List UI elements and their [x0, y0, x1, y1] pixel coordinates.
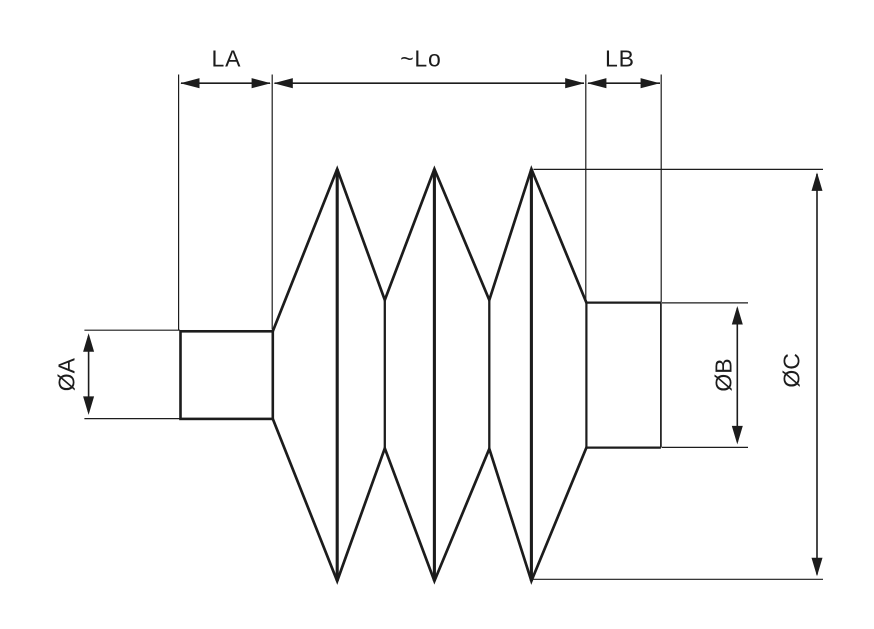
svg-text:~Lo: ~Lo: [400, 46, 441, 72]
extension line left of LA (x=178.6): [178, 75, 180, 331]
arrowhead LA right: [252, 78, 271, 88]
right collar block left edge: [585, 302, 587, 449]
svg-text:LA: LA: [212, 46, 242, 72]
ØB top extension line: [662, 302, 748, 304]
dimension line LA: [181, 82, 270, 84]
dimension line LB: [588, 82, 660, 84]
ØA top extension line: [84, 329, 180, 331]
ØC bottom extension line: [533, 578, 824, 580]
fold centre line 1: [336, 169, 339, 581]
right collar block (cylinder B) top edge: [585, 302, 661, 304]
right collar block bottom edge: [585, 447, 661, 449]
ØA arrowhead down: [83, 396, 94, 415]
bellows lower profile: [273, 419, 587, 581]
svg-text:LB: LB: [605, 46, 635, 72]
arrowhead ~Lo right: [565, 78, 584, 88]
ØC top extension line: [534, 168, 824, 170]
fold centre line 3: [530, 169, 533, 581]
fold centre line 2: [433, 169, 436, 581]
dimension line ~Lo: [275, 82, 585, 84]
ØA arrowhead up: [83, 333, 94, 352]
right collar block right edge: [660, 303, 662, 448]
ØB bottom extension line: [662, 446, 748, 448]
ØB arrowhead down: [732, 426, 743, 445]
ØB dimension arrow line: [736, 308, 738, 442]
ØB arrowhead up: [732, 306, 743, 325]
ØA bottom extension line: [84, 418, 180, 420]
svg-text:ØC: ØC: [779, 353, 805, 388]
ØC arrowhead up: [812, 172, 823, 191]
extension line Lo/LB shared (x=585.8): [585, 75, 587, 303]
ØA dimension arrow line: [88, 336, 90, 412]
arrowhead LB left: [587, 78, 606, 88]
svg-text:ØB: ØB: [710, 358, 736, 391]
ØC arrowhead down: [812, 558, 823, 577]
arrowhead LB right: [641, 78, 660, 88]
arrowhead ~Lo left: [274, 78, 293, 88]
ØC dimension arrow line: [816, 174, 818, 575]
svg-text:ØA: ØA: [54, 357, 80, 391]
waist line 1: [384, 300, 386, 448]
left collar block (small cylinder A): [181, 331, 273, 419]
bellows upper profile: [273, 169, 587, 331]
extension line right of LB (x=661.2): [660, 75, 662, 303]
arrowhead LA left: [180, 78, 199, 88]
waist line 2: [488, 300, 490, 449]
extension line LA/Lo shared (x=272.2): [271, 75, 273, 330]
